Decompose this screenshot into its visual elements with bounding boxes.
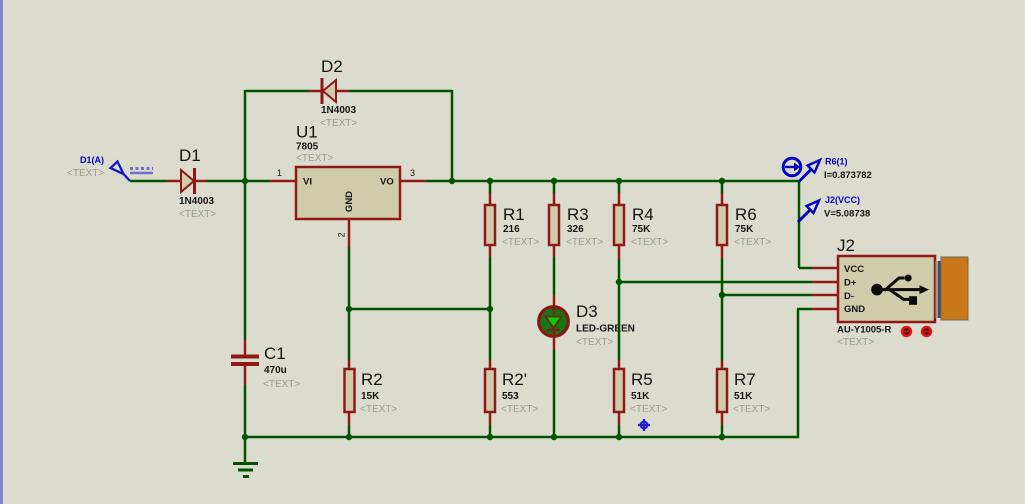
- resistor R7 body: [717, 369, 727, 412]
- resistor R6 bottom lead: [721, 245, 724, 259]
- svg-text:V=5.08738: V=5.08738: [824, 209, 870, 220]
- J2 D- pin stub: [812, 294, 838, 297]
- svg-text:C1: C1: [264, 344, 286, 363]
- connector gray tab: [936, 261, 939, 318]
- USB icon: [871, 275, 929, 305]
- wire: R5 to rail: [618, 425, 621, 437]
- resistor R6 top lead: [721, 193, 724, 206]
- svg-text:<TEXT>: <TEXT>: [263, 379, 300, 390]
- svg-text:<TEXT>: <TEXT>: [734, 237, 771, 248]
- resistor R4 top lead: [618, 193, 621, 206]
- svg-text:VCC: VCC: [844, 264, 864, 275]
- svg-text:3: 3: [410, 168, 415, 178]
- pad hole 1: [902, 327, 911, 336]
- diode D2 triangle: [323, 80, 336, 102]
- svg-text:<TEXT>: <TEXT>: [360, 404, 397, 415]
- LED D3 inner lead: [553, 308, 556, 314]
- node junction at 245,437: [242, 434, 248, 440]
- J2 GND pin stub: [812, 308, 838, 311]
- resistor R3 body: [549, 205, 559, 245]
- svg-text:D-: D-: [844, 291, 854, 302]
- wire: VCC row green: [799, 267, 812, 270]
- svg-text:470u: 470u: [264, 365, 287, 376]
- svg-text:R2': R2': [502, 370, 527, 389]
- svg-text:D1(A): D1(A): [80, 155, 104, 165]
- svg-text:R6(1): R6(1): [825, 157, 848, 167]
- resistor R5 top lead: [618, 360, 621, 370]
- capacitor C1 plate 2: [231, 362, 259, 366]
- wire: pin2 row to R2' column: [349, 308, 490, 311]
- svg-text:R4: R4: [632, 205, 654, 224]
- ground stem: [244, 437, 247, 463]
- connector J2 body: [838, 256, 935, 322]
- svg-text:<TEXT>: <TEXT>: [576, 337, 613, 348]
- svg-text:D+: D+: [844, 278, 857, 289]
- svg-text:<TEXT>: <TEXT>: [502, 237, 539, 248]
- resistor R4 bottom lead: [618, 245, 621, 259]
- resistor R2' top lead: [489, 360, 492, 370]
- wire: U1 pin2 down: [348, 247, 351, 360]
- capacitor C1 top lead: [244, 340, 247, 356]
- wire: R7 to rail: [721, 425, 724, 437]
- LED D3 circle: [539, 307, 569, 337]
- resistor R2' body: [485, 369, 495, 412]
- resistor R1 top green: [489, 181, 492, 193]
- node junction at 554,181: [551, 178, 557, 184]
- LED D3 triangle: [546, 317, 562, 329]
- svg-text:553: 553: [502, 391, 519, 402]
- node junction at 619,181: [616, 178, 622, 184]
- svg-text:51K: 51K: [734, 391, 753, 402]
- terminal D1(A) solid mark: [130, 172, 153, 174]
- capacitor C1 plate 1: [231, 355, 259, 359]
- resistor R6 body: [717, 205, 727, 245]
- wire: bottom rail: [245, 436, 799, 439]
- J2 VCC pin stub: [812, 267, 838, 270]
- capacitor C1 bottom lead: [244, 366, 247, 385]
- wire: D+ row green: [619, 281, 812, 284]
- node junction at 349,437: [346, 434, 352, 440]
- diode D1 triangle: [181, 170, 194, 192]
- wire: R2 to rail: [348, 425, 351, 437]
- svg-text:7805: 7805: [296, 142, 319, 153]
- svg-text:1N4003: 1N4003: [321, 105, 356, 116]
- wire: GND row green: [797, 308, 812, 311]
- wire: D2 loop left vertical: [244, 90, 247, 181]
- node junction at 619,282: [616, 279, 622, 285]
- wire: input to D1: [130, 180, 166, 183]
- node junction at 245,181: [242, 178, 248, 184]
- U1 pin3 stub: [400, 180, 426, 183]
- wire: R2' to rail: [489, 425, 492, 437]
- wire: R1 bottom to junction: [489, 257, 492, 360]
- wire: corner down to VCC row: [798, 181, 801, 268]
- node junction at 490,181: [487, 178, 493, 184]
- resistor R2 bottom lead: [348, 412, 351, 425]
- svg-text:LED-GREEN: LED-GREEN: [576, 324, 635, 335]
- wire: main top rail from U1 pin3 to corner: [426, 180, 799, 183]
- wire: LED to rail: [553, 350, 556, 437]
- ground bar 1: [233, 462, 258, 465]
- diode D1 anode stub: [166, 180, 181, 183]
- ground bar 3: [243, 475, 249, 478]
- svg-text:<TEXT>: <TEXT>: [631, 237, 668, 248]
- terminal D1(A) dashed marks: [130, 167, 153, 170]
- node junction at 554,437: [551, 434, 557, 440]
- node junction at 490,309: [487, 306, 493, 312]
- resistor R7 top lead: [721, 360, 724, 370]
- LED D3 top lead: [553, 295, 556, 310]
- LED D3 bottom lead: [553, 330, 556, 350]
- resistor R2 body: [345, 369, 355, 412]
- svg-text:216: 216: [503, 224, 520, 235]
- wire: D- row green: [722, 294, 812, 297]
- svg-text:<TEXT>: <TEXT>: [733, 404, 770, 415]
- resistor R2 top lead: [348, 360, 351, 370]
- resistor R3 bottom lead: [553, 245, 556, 257]
- left blue edge strip: [0, 0, 3, 504]
- J2 D+ pin stub: [812, 281, 838, 284]
- svg-text:R7: R7: [734, 370, 756, 389]
- svg-text:AU-Y1005-R: AU-Y1005-R: [837, 325, 892, 336]
- svg-text:R5: R5: [631, 370, 653, 389]
- svg-text:1: 1: [277, 168, 282, 178]
- diode D2 cathode bar: [321, 78, 324, 104]
- resistor R6 top green: [721, 181, 724, 193]
- probe R6(1) arrow: [799, 169, 812, 182]
- wire: C1 to bottom rail: [244, 385, 247, 437]
- resistor R3 top green: [553, 181, 556, 193]
- wire: D2 loop right vertical: [451, 90, 454, 181]
- svg-text:326: 326: [567, 224, 584, 235]
- svg-text:U1: U1: [296, 123, 318, 142]
- node junction at 722,295: [719, 292, 725, 298]
- svg-text:1N4003: 1N4003: [179, 196, 214, 207]
- svg-text:J2(VCC): J2(VCC): [825, 195, 860, 205]
- svg-text:15K: 15K: [361, 391, 380, 402]
- svg-text:<TEXT>: <TEXT>: [67, 168, 104, 179]
- svg-text:R6: R6: [735, 205, 757, 224]
- resistor R5 bottom lead: [618, 412, 621, 425]
- node junction at 722,437: [719, 434, 725, 440]
- wire: GND down to rail: [797, 309, 800, 438]
- resistor R4 body: [614, 205, 624, 245]
- svg-text:R1: R1: [503, 205, 525, 224]
- svg-text:VO: VO: [380, 177, 394, 188]
- origin marker: [638, 419, 650, 431]
- node junction at 452,181: [449, 178, 455, 184]
- svg-text:<TEXT>: <TEXT>: [630, 404, 667, 415]
- svg-text:VI: VI: [303, 177, 312, 188]
- svg-text:75K: 75K: [735, 224, 754, 235]
- node junction at 490,437: [487, 434, 493, 440]
- node junction at 619,437: [616, 434, 622, 440]
- resistor R3 top lead: [553, 193, 556, 206]
- svg-text:<TEXT>: <TEXT>: [320, 118, 357, 129]
- wire: C1 branch vertical: [244, 181, 247, 340]
- pad hole 2: [922, 327, 931, 336]
- svg-text:<TEXT>: <TEXT>: [296, 153, 333, 164]
- wire: D2 loop top-left green: [245, 90, 309, 93]
- diode D1 cathode bar: [193, 168, 196, 194]
- svg-text:GND: GND: [344, 191, 355, 212]
- svg-text:GND: GND: [844, 304, 865, 315]
- resistor R4 top green: [618, 181, 621, 193]
- svg-text:D2: D2: [321, 57, 343, 76]
- probe J2(VCC) arrow: [798, 209, 811, 222]
- resistor R5 body: [614, 369, 624, 412]
- wire: R4 down to R5: [618, 259, 621, 360]
- svg-text:R2: R2: [361, 370, 383, 389]
- diode D2 right stub (anode): [336, 90, 349, 93]
- terminal D1(A) tail: [124, 174, 131, 181]
- svg-text:R3: R3: [567, 205, 589, 224]
- node junction at 722,181: [719, 178, 725, 184]
- current probe circle: [783, 158, 801, 176]
- wire: R6 down to R7: [721, 259, 724, 360]
- ground bar 2: [238, 469, 253, 472]
- svg-text:2: 2: [337, 232, 347, 237]
- resistor R1 top lead: [489, 193, 492, 206]
- resistor R2' bottom lead: [489, 412, 492, 425]
- U1 pin2 stub: [348, 219, 351, 247]
- diode D1 cathode stub: [195, 180, 207, 183]
- op-amp U1 body (7805 regulator): [296, 167, 400, 219]
- connector orange block: [941, 257, 968, 320]
- svg-text:D1: D1: [179, 146, 201, 165]
- svg-text:75K: 75K: [632, 224, 651, 235]
- U1 pin1 stub: [270, 180, 296, 183]
- svg-text:<TEXT>: <TEXT>: [179, 209, 216, 220]
- resistor R7 bottom lead: [721, 412, 724, 425]
- terminal D1(A) input triangle: [111, 162, 124, 175]
- svg-text:D3: D3: [576, 302, 598, 321]
- wire: D1 to U1 pin1: [207, 180, 270, 183]
- svg-text:I=0.873782: I=0.873782: [824, 170, 872, 181]
- svg-text:51K: 51K: [631, 391, 650, 402]
- LED D3 cathode bar: [547, 329, 560, 332]
- svg-text:<TEXT>: <TEXT>: [501, 404, 538, 415]
- diode D2 left stub (cathode): [309, 90, 323, 93]
- node junction at 349,309: [346, 306, 352, 312]
- svg-text:<TEXT>: <TEXT>: [566, 237, 603, 248]
- resistor R1 body: [485, 205, 495, 245]
- wire: D2 loop top-right green: [349, 90, 452, 93]
- resistor R1 bottom lead: [489, 245, 492, 257]
- current probe arrow: [785, 166, 795, 168]
- svg-text:<TEXT>: <TEXT>: [837, 337, 874, 348]
- wire: R3 to LED: [553, 257, 556, 295]
- svg-text:J2: J2: [837, 236, 855, 255]
